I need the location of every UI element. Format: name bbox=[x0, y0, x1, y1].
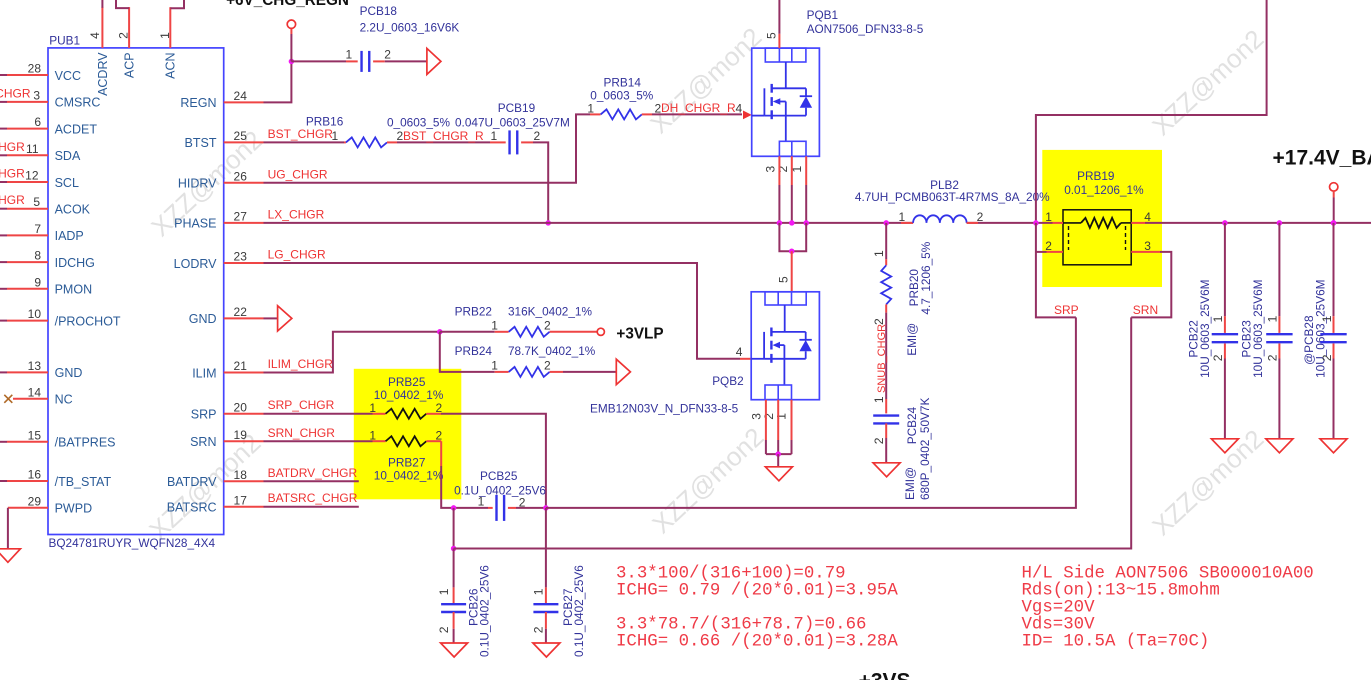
inductor PLB2 4.7UH_PCMB063T-4R7MS_8A_20% bbox=[855, 178, 1050, 224]
svg-text:+6V_CHG_REGN: +6V_CHG_REGN bbox=[226, 0, 349, 9]
svg-text:17: 17 bbox=[234, 493, 248, 507]
junction dot +17.4V bbox=[1331, 220, 1337, 226]
svg-text:4: 4 bbox=[736, 101, 743, 115]
wire @PCB28 column bbox=[1333, 223, 1335, 316]
svg-text:ACN: ACN bbox=[164, 52, 178, 78]
wire /TB_STAT pin16 bbox=[0, 480, 7, 482]
svg-text:SRN: SRN bbox=[1133, 303, 1158, 317]
wire PRB25 to PCB25 node bbox=[426, 413, 441, 415]
svg-text:+17.4V_BAT: +17.4V_BAT bbox=[1273, 147, 1371, 170]
svg-text:VCC: VCC bbox=[55, 69, 81, 83]
svg-text:SRP_CHGR: SRP_CHGR bbox=[268, 398, 335, 412]
svg-text:1: 1 bbox=[532, 588, 546, 595]
junction dot PCB19/LX bbox=[545, 220, 551, 226]
transistor PQB2 EMB12N03V_N_DFN33-8-5 bbox=[590, 292, 819, 420]
svg-text:2: 2 bbox=[1211, 354, 1225, 361]
svg-text:10U_0603_25V6M: 10U_0603_25V6M bbox=[1198, 280, 1212, 378]
svg-text:1: 1 bbox=[478, 494, 485, 508]
svg-text:EMI@: EMI@ bbox=[903, 467, 917, 500]
svg-text:LODRV: LODRV bbox=[174, 257, 218, 271]
wire PMON pin9 bbox=[0, 288, 7, 290]
svg-text:PRB14: PRB14 bbox=[604, 76, 642, 90]
wire PCB23 to ground bbox=[1278, 344, 1280, 359]
svg-text:316K_0402_1%: 316K_0402_1% bbox=[508, 305, 592, 319]
junction dot SRN/PCB26 bbox=[451, 505, 457, 511]
svg-text:10U_0603_25V6M: 10U_0603_25V6M bbox=[1314, 280, 1328, 378]
output port triangle (ILIM divider) bbox=[616, 359, 630, 384]
junction dot LX s2 bbox=[789, 220, 795, 226]
junction dot SNUB node bbox=[883, 220, 889, 226]
wire CMSRC pin3 net CHGR bbox=[0, 101, 7, 103]
svg-text:2: 2 bbox=[1266, 354, 1280, 361]
svg-text:2: 2 bbox=[977, 210, 984, 224]
wire PRB19 pin3 SRN kelvin bbox=[1131, 251, 1160, 253]
svg-text:1: 1 bbox=[872, 250, 886, 257]
svg-text:NC: NC bbox=[55, 393, 73, 407]
svg-text:/BATPRES: /BATPRES bbox=[55, 436, 116, 450]
svg-text:5: 5 bbox=[33, 195, 40, 209]
svg-text:BST_CHGR_R: BST_CHGR_R bbox=[403, 129, 484, 143]
capacitor PCB23 10U_0603_25V6M bbox=[1240, 280, 1293, 378]
svg-text:/PROCHOT: /PROCHOT bbox=[55, 314, 121, 328]
svg-text:2.2U_0603_16V6K: 2.2U_0603_16V6K bbox=[360, 21, 460, 35]
svg-text:21: 21 bbox=[234, 359, 248, 373]
svg-text:PQB1: PQB1 bbox=[807, 8, 838, 22]
capacitor PCB25 0.1U_0402_25V6 bbox=[454, 469, 546, 521]
svg-text:3: 3 bbox=[33, 88, 40, 102]
svg-text:22: 22 bbox=[234, 305, 248, 319]
svg-text:2: 2 bbox=[384, 47, 391, 61]
svg-text:1: 1 bbox=[899, 210, 906, 224]
svg-text:9: 9 bbox=[34, 275, 41, 289]
svg-text:2: 2 bbox=[534, 129, 541, 143]
svg-text:1: 1 bbox=[1211, 315, 1225, 322]
svg-text:6: 6 bbox=[34, 115, 41, 129]
wire PQB2 source pin1 bbox=[791, 400, 793, 440]
wire PQB1 source pin2 bbox=[791, 156, 793, 185]
svg-text:BATSRC: BATSRC bbox=[167, 501, 217, 515]
svg-text:2: 2 bbox=[116, 32, 130, 39]
resistor PRB24 78.7K_0402_1% bbox=[455, 344, 596, 377]
wire PRB24 to port bbox=[563, 371, 616, 373]
wire SRP sense to PRB19 SRP bbox=[546, 317, 1076, 508]
wire +6V node to PCB18 bbox=[291, 60, 346, 62]
svg-text:1: 1 bbox=[369, 428, 376, 442]
wire PRB19 pin2 SRP kelvin bbox=[1047, 251, 1064, 253]
svg-text:PUB1: PUB1 bbox=[49, 34, 80, 48]
svg-text:24: 24 bbox=[234, 89, 248, 103]
junction dot PQB2 source bbox=[775, 451, 781, 457]
resistor PRB14 0_0603_5% bbox=[587, 76, 661, 120]
pin numbers left side bbox=[28, 62, 42, 509]
junction dot ILIM divider bbox=[437, 329, 443, 335]
wire SRN sense horizontal y=507.9 bbox=[454, 507, 488, 509]
wire SCL pin12 net HGR bbox=[0, 181, 7, 183]
junction dot SRN bottom bbox=[451, 546, 457, 552]
svg-text:1: 1 bbox=[775, 413, 789, 420]
junction dot PCB23 bbox=[1277, 220, 1283, 226]
svg-text:ACP: ACP bbox=[123, 52, 137, 78]
wire PCB27 column bbox=[545, 508, 547, 588]
svg-text:2: 2 bbox=[544, 358, 551, 372]
svg-text:5: 5 bbox=[764, 32, 778, 39]
resistor PRB16 0_0603_5% bbox=[306, 114, 451, 147]
svg-text:29: 29 bbox=[28, 494, 42, 508]
svg-text:10_0402_1%: 10_0402_1% bbox=[374, 388, 444, 402]
wire PWPD pin29 bbox=[8, 507, 48, 509]
junction dot LX s1 bbox=[803, 220, 809, 226]
svg-text:PRB24: PRB24 bbox=[455, 344, 493, 358]
svg-text:5: 5 bbox=[777, 276, 791, 283]
wire PQB2 pin5 drain bbox=[791, 251, 793, 292]
svg-text:18: 18 bbox=[234, 468, 248, 482]
junction dot LX/PRB19 bbox=[1033, 220, 1039, 226]
capacitor PCB19 0.047U_0603_25V7M bbox=[455, 101, 570, 154]
wire PQB1 source pin3 bbox=[778, 156, 780, 185]
wire SRN sense down and right to PRB19 SRN bbox=[453, 508, 455, 549]
wire PQB1 source pin1 bbox=[805, 156, 807, 185]
wire PQB2 source pin2 bbox=[777, 400, 779, 440]
svg-text:PCB24: PCB24 bbox=[905, 406, 919, 444]
power port +17.4V_BAT bbox=[1330, 183, 1338, 191]
note text ICHG calculations bbox=[616, 564, 898, 651]
svg-text:10U_0603_25V6M: 10U_0603_25V6M bbox=[1251, 280, 1265, 378]
svg-text:SRN: SRN bbox=[190, 435, 216, 449]
svg-text:UG_CHGR: UG_CHGR bbox=[268, 168, 328, 182]
svg-text:+3VS: +3VS bbox=[859, 669, 911, 680]
svg-text:1: 1 bbox=[332, 129, 339, 143]
svg-text:ACOK: ACOK bbox=[55, 203, 91, 217]
svg-text:27: 27 bbox=[234, 210, 248, 224]
svg-text:1: 1 bbox=[491, 358, 498, 372]
svg-text:PMON: PMON bbox=[55, 283, 93, 297]
svg-text:BST_CHGR: BST_CHGR bbox=[268, 127, 334, 141]
wire PQB2 source bus bbox=[766, 453, 792, 455]
svg-text:2: 2 bbox=[532, 626, 546, 633]
svg-text:0.1U_0402_25V6: 0.1U_0402_25V6 bbox=[478, 565, 492, 657]
svg-text:PCB19: PCB19 bbox=[498, 101, 535, 115]
svg-text:LG_CHGR: LG_CHGR bbox=[268, 248, 326, 262]
svg-text:HGR: HGR bbox=[0, 167, 25, 181]
svg-text:4: 4 bbox=[736, 345, 743, 359]
svg-text:28: 28 bbox=[28, 62, 42, 76]
svg-text:20: 20 bbox=[234, 400, 248, 414]
wire /BATPRES pin15 bbox=[0, 441, 7, 443]
svg-text:1: 1 bbox=[872, 396, 886, 403]
svg-text:ACDRV: ACDRV bbox=[96, 52, 110, 96]
wire PCB27 to ground bbox=[545, 612, 547, 629]
capacitor PCB24 680P_0402_50V7K bbox=[872, 396, 932, 500]
svg-text:4.7_1206_5%: 4.7_1206_5% bbox=[919, 241, 933, 314]
wire PCB18 to output port bbox=[373, 60, 385, 62]
wire PQB2 source pin3 bbox=[765, 400, 767, 440]
junction dot SRP/PCB27 bbox=[543, 505, 549, 511]
svg-text:PRB19: PRB19 bbox=[1077, 169, 1114, 183]
ground for PQB2 bbox=[765, 467, 792, 481]
svg-text:8: 8 bbox=[34, 249, 41, 263]
svg-text:7: 7 bbox=[34, 222, 41, 236]
wire LX stub down to PQB2 drain bbox=[779, 223, 806, 251]
ground for PWPD bbox=[0, 549, 20, 563]
ground for PCB24 bbox=[873, 463, 900, 477]
svg-text:4.7UH_PCMB063T-4R7MS_8A_20%: 4.7UH_PCMB063T-4R7MS_8A_20% bbox=[855, 190, 1050, 204]
svg-text:/TB_STAT: /TB_STAT bbox=[55, 475, 112, 489]
svg-text:AON7506_DFN33-8-5: AON7506_DFN33-8-5 bbox=[807, 22, 924, 36]
svg-text:16: 16 bbox=[28, 468, 42, 482]
wire SRN sense horizontal y=548.5 bbox=[454, 317, 1132, 548]
port triangle GND22 bbox=[278, 306, 292, 331]
wire ILIM to PRB24 bbox=[440, 332, 495, 372]
svg-text:ILIM: ILIM bbox=[192, 366, 216, 380]
wire LX to top right bbox=[1036, 0, 1267, 223]
svg-text:CHGR: CHGR bbox=[0, 86, 31, 100]
wire ACP pin2 bbox=[128, 7, 130, 48]
input arrow at PQB1 gate bbox=[743, 111, 752, 120]
wire PCB22 column bbox=[1224, 223, 1226, 316]
wire PRB19 pin4 out bbox=[1131, 222, 1145, 224]
svg-text:REGN: REGN bbox=[180, 96, 216, 110]
ground for @PCB28 bbox=[1320, 439, 1347, 453]
wire PRB27 down to sense node bbox=[426, 440, 441, 442]
wire @PCB28 to ground bbox=[1333, 344, 1335, 359]
svg-text:2: 2 bbox=[776, 166, 790, 173]
wire PCB24 to ground bbox=[885, 423, 887, 438]
svg-text:CMSRC: CMSRC bbox=[55, 96, 101, 110]
svg-text:2: 2 bbox=[437, 626, 451, 633]
svg-text:SCL: SCL bbox=[55, 176, 79, 190]
svg-text:PRB22: PRB22 bbox=[455, 305, 492, 319]
svg-text:SRN_CHGR: SRN_CHGR bbox=[268, 426, 336, 440]
power port +6V_CHG_REGN bbox=[290, 29, 292, 34]
ground for PCB22 bbox=[1211, 439, 1238, 453]
wire SNUB down bbox=[885, 223, 887, 259]
svg-text:11: 11 bbox=[26, 142, 39, 156]
IC PUB1 BQ24781RUYR_WQFN28_4X4 bbox=[48, 34, 224, 550]
svg-text:2: 2 bbox=[1045, 239, 1052, 253]
svg-text:ILIM_CHGR: ILIM_CHGR bbox=[268, 357, 334, 371]
svg-text:23: 23 bbox=[234, 250, 248, 264]
wire PCB19 to LX node bbox=[521, 141, 533, 143]
svg-text:1: 1 bbox=[369, 401, 376, 415]
svg-text:BATSRC_CHGR: BATSRC_CHGR bbox=[268, 491, 358, 505]
svg-text:BATDRV: BATDRV bbox=[167, 475, 217, 489]
svg-text:2: 2 bbox=[1320, 354, 1334, 361]
wire SDA pin11 net HGR bbox=[0, 154, 7, 156]
svg-text:+3VLP: +3VLP bbox=[616, 326, 663, 343]
wire net BST_CHGR_R bbox=[387, 141, 397, 143]
wire ACDRV pin4 bbox=[101, 7, 103, 48]
svg-text:0_0603_5%: 0_0603_5% bbox=[590, 89, 653, 103]
ground for PCB23 bbox=[1266, 439, 1293, 453]
svg-text:0.1U_0402_25V6: 0.1U_0402_25V6 bbox=[454, 483, 546, 497]
svg-text:PHASE: PHASE bbox=[174, 217, 216, 231]
svg-text:1: 1 bbox=[158, 32, 172, 39]
svg-text:PRB25: PRB25 bbox=[388, 375, 426, 389]
svg-text:LX_CHGR: LX_CHGR bbox=[268, 208, 325, 222]
svg-text:0_0603_5%: 0_0603_5% bbox=[387, 115, 450, 129]
svg-text:BATDRV_CHGR: BATDRV_CHGR bbox=[268, 466, 358, 480]
svg-text:SNUB_CHGR: SNUB_CHGR bbox=[876, 324, 888, 393]
highlight box PRB25/PRB27 bbox=[354, 369, 462, 500]
wire IADP pin7 bbox=[0, 234, 7, 236]
capacitor PCB26 0.1U_0402_25V6 bbox=[437, 565, 492, 657]
wire ACOK pin5 net HGR bbox=[0, 208, 7, 210]
svg-text:ICHG= 0.66 /(20*0.01)=3.28A: ICHG= 0.66 /(20*0.01)=3.28A bbox=[616, 632, 898, 651]
svg-text:SRP: SRP bbox=[1054, 303, 1079, 317]
svg-text:PCB18: PCB18 bbox=[360, 4, 398, 18]
svg-text:GND: GND bbox=[55, 366, 83, 380]
svg-text:PRB27: PRB27 bbox=[388, 455, 425, 469]
wire IDCHG pin8 bbox=[0, 261, 7, 263]
junction dot PCB22 bbox=[1222, 220, 1228, 226]
svg-text:19: 19 bbox=[234, 428, 248, 442]
capacitor @PCB28 10U_0603_25V6M bbox=[1302, 280, 1347, 378]
svg-text:15: 15 bbox=[28, 428, 42, 442]
ground for PCB26 bbox=[441, 643, 468, 657]
svg-text:10: 10 bbox=[28, 307, 42, 321]
svg-text:2: 2 bbox=[872, 437, 886, 444]
svg-text:1: 1 bbox=[1045, 210, 1052, 224]
wire VCC pin28 bbox=[0, 74, 7, 76]
svg-text:ID= 10.5A (Ta=70C): ID= 10.5A (Ta=70C) bbox=[1022, 632, 1210, 651]
capacitor PCB22 10U_0603_25V6M bbox=[1187, 280, 1239, 378]
wire LX after inductor to PRB19 bbox=[967, 222, 1053, 224]
svg-text:3: 3 bbox=[1144, 239, 1151, 253]
svg-text:0.047U_0603_25V7M: 0.047U_0603_25V7M bbox=[455, 115, 570, 129]
svg-text:ICHG= 0.79 /(20*0.01)=3.95A: ICHG= 0.79 /(20*0.01)=3.95A bbox=[616, 581, 898, 600]
note text H/L side FET data bbox=[1022, 564, 1314, 651]
svg-text:PWPD: PWPD bbox=[55, 502, 93, 516]
svg-text:ACDET: ACDET bbox=[55, 122, 98, 136]
capacitor PCB18 2.2U_0603_16V6K bbox=[346, 4, 460, 72]
wire PQB1 drain pin5 to top bbox=[778, 34, 780, 48]
svg-text:BQ24781RUYR_WQFN28_4X4: BQ24781RUYR_WQFN28_4X4 bbox=[49, 536, 216, 550]
svg-text:IDCHG: IDCHG bbox=[55, 256, 95, 270]
svg-text:10_0402_1%: 10_0402_1% bbox=[374, 469, 444, 483]
svg-text:2: 2 bbox=[544, 318, 551, 332]
resistor PRB22 316K_0402_1% bbox=[440, 305, 597, 337]
wire PCB25 pin2 to SRP node bbox=[508, 507, 516, 509]
no-connect X on NC pin14 bbox=[13, 398, 48, 400]
wire ACDET pin6 bbox=[0, 128, 7, 130]
svg-text:PCB25: PCB25 bbox=[480, 469, 518, 483]
wire to ground PQB2 bbox=[777, 454, 779, 467]
svg-text:1: 1 bbox=[437, 588, 451, 595]
svg-text:SRP: SRP bbox=[191, 408, 217, 422]
svg-text:4: 4 bbox=[88, 32, 102, 39]
svg-text:1: 1 bbox=[587, 101, 594, 115]
wire GND pin13 bbox=[0, 371, 7, 373]
wire net DH_CHGR_R to PQB1 gate bbox=[642, 113, 652, 115]
svg-text:BTST: BTST bbox=[185, 136, 217, 150]
svg-text:1: 1 bbox=[346, 47, 353, 61]
svg-text:PRB16: PRB16 bbox=[306, 114, 344, 128]
svg-text:EMI@: EMI@ bbox=[905, 323, 919, 356]
svg-text:1: 1 bbox=[491, 318, 498, 332]
capacitor PCB27 0.1U_0402_25V6 bbox=[532, 565, 587, 657]
resistor PRB27 10_0402_1% bbox=[369, 428, 443, 482]
svg-text:GND: GND bbox=[189, 312, 217, 326]
wire PCB23 column bbox=[1278, 223, 1280, 316]
svg-text:0.1U_0402_25V6: 0.1U_0402_25V6 bbox=[572, 565, 586, 657]
svg-text:26: 26 bbox=[234, 169, 248, 183]
svg-text:HGR: HGR bbox=[0, 193, 25, 207]
svg-text:13: 13 bbox=[28, 359, 42, 373]
svg-text:4: 4 bbox=[1144, 210, 1151, 224]
wire PCB22 to ground bbox=[1224, 344, 1226, 359]
svg-text:1: 1 bbox=[491, 129, 498, 143]
highlight box PRB19 bbox=[1042, 150, 1162, 287]
ground for PCB27 bbox=[533, 643, 560, 657]
svg-text:HGR: HGR bbox=[0, 140, 25, 154]
wire /PROCHOT pin10 bbox=[0, 320, 7, 322]
wire ACN pin1 bbox=[169, 7, 171, 48]
svg-text:14: 14 bbox=[28, 385, 42, 399]
power port +3VLP bbox=[597, 328, 604, 335]
svg-text:25: 25 bbox=[234, 129, 248, 143]
svg-text:SDA: SDA bbox=[55, 149, 81, 163]
wire PCB26 to ground bbox=[453, 612, 455, 629]
resistor PRB19 0.01_1206_1% bbox=[1045, 169, 1151, 265]
junction dot PQB2 drain node bbox=[789, 248, 795, 254]
svg-text:78.7K_0402_1%: 78.7K_0402_1% bbox=[508, 344, 596, 358]
wire to PCB26 bbox=[453, 549, 455, 588]
svg-text:1: 1 bbox=[1320, 315, 1334, 322]
svg-text:12: 12 bbox=[25, 169, 39, 183]
junction dot LX s3 bbox=[777, 220, 783, 226]
svg-text:DH_CHGR_R: DH_CHGR_R bbox=[661, 101, 736, 115]
svg-text:PQB2: PQB2 bbox=[712, 374, 743, 388]
junction dot +6V node bbox=[289, 59, 295, 65]
svg-text:0.01_1206_1%: 0.01_1206_1% bbox=[1064, 183, 1144, 197]
output port triangle (REGN) bbox=[427, 48, 441, 74]
wire net SNUB_CHGR bbox=[885, 304, 887, 312]
svg-text:680P_0402_50V7K: 680P_0402_50V7K bbox=[918, 398, 932, 500]
transistor PQB1 AON7506_DFN33-8-5 bbox=[752, 8, 924, 172]
svg-text:IADP: IADP bbox=[55, 229, 84, 243]
junction dot @PCB28 bbox=[1331, 220, 1337, 226]
svg-text:HIDRV: HIDRV bbox=[178, 177, 217, 191]
resistor PRB25 10_0402_1% bbox=[369, 375, 443, 419]
resistor PRB20 4.7_1206_5% bbox=[872, 241, 933, 356]
svg-text:1: 1 bbox=[1266, 315, 1280, 322]
svg-text:EMB12N03V_N_DFN33-8-5: EMB12N03V_N_DFN33-8-5 bbox=[590, 402, 739, 416]
